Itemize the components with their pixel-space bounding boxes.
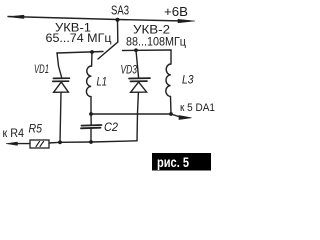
- wire L3 upper lead: [170, 50, 172, 64]
- node junction dot L1/C2: [89, 112, 93, 116]
- svg-text:SA3: SA3: [111, 3, 129, 18]
- wire VD1 upper lead: [57, 53, 62, 78]
- capacitor C2 plate bottom: [81, 127, 101, 130]
- svg-text:L1: L1: [97, 77, 108, 89]
- svg-text:R5: R5: [29, 124, 43, 136]
- node junction dot VD3 top: [134, 48, 138, 52]
- wire L3 lower lead: [170, 96, 173, 114]
- node junction dot L1 top: [90, 50, 94, 54]
- wire VD3 lower lead: [137, 92, 138, 141]
- wire output to DA1: [171, 114, 181, 117]
- resistor R5 body: [30, 140, 49, 148]
- svg-text:88...108МГц: 88...108МГц: [126, 35, 186, 49]
- diode triangle VD3: [131, 82, 147, 92]
- wire middle bus: [91, 113, 171, 115]
- wire R4 arrow to resistor: [17, 143, 30, 145]
- wire UKV-1 contact line: [57, 52, 103, 54]
- svg-text:к R4: к R4: [3, 128, 25, 140]
- wire L1 upper lead: [91, 52, 93, 66]
- node junction dot VD1 bottom: [58, 140, 62, 144]
- node SA3 junction dot: [116, 18, 120, 22]
- capacitor bar of varicap VD1: [53, 77, 69, 79]
- node output arrow to 5 DA1: [179, 116, 192, 120]
- wire bottom bus: [49, 141, 137, 143]
- svg-text:рис. 5: рис. 5: [157, 155, 189, 170]
- caption box ris.5: [152, 153, 211, 171]
- wire L1 lower lead: [90, 97, 92, 114]
- capacitor bar2 of varicap VD3: [130, 80, 147, 82]
- node junction dot L3 bottom: [169, 112, 173, 116]
- node +6V arrow: [178, 19, 195, 23]
- svg-text:+6В: +6В: [164, 4, 188, 19]
- resistor R5 hatch marks: [36, 142, 44, 147]
- node junction dot C2 bottom: [89, 140, 93, 144]
- capacitor bar2 of varicap VD1: [53, 80, 69, 82]
- diode triangle VD1: [54, 82, 69, 92]
- node left arrow (to antenna): [8, 15, 24, 18]
- wire C2 lower lead: [90, 128, 92, 142]
- svg-text:65...74 МГц: 65...74 МГц: [46, 31, 112, 45]
- svg-text:VD3: VD3: [121, 65, 138, 77]
- wire VD3 upper lead: [136, 50, 139, 78]
- svg-text:к 5 DA1: к 5 DA1: [180, 102, 215, 114]
- wire UKV-2 contact line: [123, 49, 172, 52]
- svg-text:VD1: VD1: [34, 64, 49, 76]
- wire top rail: [8, 17, 183, 22]
- inductor L3: [166, 64, 171, 96]
- wire VD1 lower lead: [60, 92, 61, 142]
- node R4 arrow: [6, 142, 17, 145]
- svg-text:L3: L3: [182, 75, 194, 87]
- wire C2 upper lead: [90, 114, 92, 125]
- capacitor bar of varicap VD3: [129, 77, 150, 79]
- switch SA3 lever: [98, 20, 118, 59]
- capacitor C2 plate top: [82, 124, 102, 127]
- svg-text:С2: С2: [104, 122, 119, 134]
- inductor L1: [86, 66, 91, 97]
